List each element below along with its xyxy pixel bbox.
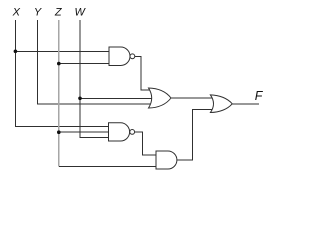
- svg-text:W: W: [75, 7, 87, 19]
- wire AND U4 output to OR U5 input 2: [177, 110, 213, 161]
- junction dot Z/NAND U1: [57, 62, 61, 66]
- wire X branch to NAND U1 input 1: [15, 50, 109, 52]
- wire Z bottom turn to AND U4 input 2: [59, 166, 157, 168]
- or gate U3 (3 inputs): [149, 88, 172, 108]
- junction dot W/OR U3: [78, 97, 82, 101]
- wire OR U5 output to F: [232, 103, 259, 105]
- nand gate U2 (inputs X, Z, W): [109, 123, 130, 141]
- nand U1 output bubble: [130, 54, 135, 59]
- nand gate U1 (inputs X, Z): [109, 47, 130, 66]
- svg-text:X: X: [12, 7, 21, 19]
- junction dot X/NAND U1: [14, 50, 18, 54]
- or gate U5 (2 inputs, output F): [210, 95, 232, 113]
- svg-text:Y: Y: [34, 7, 42, 19]
- wire NAND U2 output to AND U4 input 1: [135, 132, 157, 155]
- svg-text:F: F: [255, 89, 264, 103]
- junction dot Z/NAND U2: [57, 130, 61, 134]
- wire W branch to OR U3 input 2: [80, 97, 153, 99]
- and gate U4: [156, 151, 177, 169]
- nand U2 output bubble: [130, 130, 135, 135]
- wire OR U3 output to OR U5 input 1: [171, 97, 213, 99]
- wire Z branch to NAND U1 input 2: [59, 63, 110, 65]
- svg-text:Z: Z: [54, 7, 63, 19]
- wire input rail Y (vertical, turns right to OR U3 input 3): [38, 20, 153, 104]
- wire input rail W (vertical, turns right to NAND U2 input 3): [80, 20, 109, 137]
- wire Z branch to NAND U2 input 2: [59, 131, 109, 133]
- wire NAND U1 output to OR U3 input 1: [135, 56, 151, 90]
- wire input rail Z (vertical, gray): [58, 20, 60, 167]
- wire input rail X (vertical, turns right to NAND U2 input 1): [15, 20, 108, 127]
